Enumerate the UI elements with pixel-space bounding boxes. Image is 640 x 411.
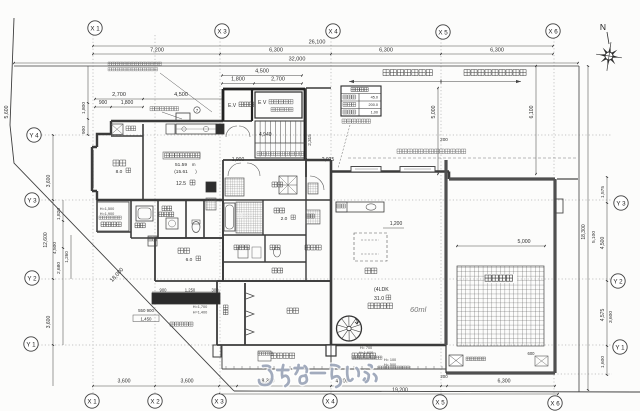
svg-text:Y 1: Y 1 xyxy=(615,344,625,351)
svg-text:200.0: 200.0 xyxy=(368,103,378,107)
washer boxes row xyxy=(238,247,248,258)
bathroom row walls (left unit) xyxy=(97,200,223,238)
svg-text:X 5: X 5 xyxy=(435,399,445,406)
mono-ire dark box xyxy=(206,182,216,192)
svg-text:1,260: 1,260 xyxy=(64,251,69,263)
north arrow xyxy=(594,40,624,72)
senmen room xyxy=(162,206,172,211)
svg-text:550 900: 550 900 xyxy=(138,308,154,313)
butsudan label xyxy=(150,107,179,111)
step spec table xyxy=(341,86,381,116)
svg-text:6,100: 6,100 xyxy=(529,105,535,118)
svg-text:X 6: X 6 xyxy=(548,28,558,35)
yoshitsu 2.0 xyxy=(274,208,285,213)
tesuri label xyxy=(342,119,371,123)
svg-text:1,00: 1,00 xyxy=(371,111,378,115)
kitchen right unit xyxy=(336,202,384,212)
svg-text:4,500: 4,500 xyxy=(600,237,606,250)
svg-text:200: 200 xyxy=(440,374,448,379)
svg-text:600: 600 xyxy=(528,351,536,356)
svg-text:3,600: 3,600 xyxy=(46,175,52,188)
wc left unit xyxy=(192,222,200,233)
middle block outer xyxy=(223,158,331,281)
corridor label mid xyxy=(272,182,283,187)
living labels xyxy=(365,268,377,274)
pillar at wall below stair xyxy=(326,345,336,356)
south balcony xyxy=(213,345,221,357)
svg-text:26,100: 26,100 xyxy=(309,40,326,46)
svg-text:31.0: 31.0 xyxy=(374,296,384,302)
small tile right xyxy=(308,183,318,194)
door arcs top middle xyxy=(228,163,260,176)
EV hall door arcs xyxy=(226,126,250,137)
svg-text:H=1,500: H=1,500 xyxy=(100,207,114,211)
washitsu label xyxy=(113,160,126,166)
svg-text:4,500: 4,500 xyxy=(255,69,269,75)
svg-text:12,600: 12,600 xyxy=(43,232,49,248)
svg-text:900: 900 xyxy=(81,126,87,134)
svg-text:3,600: 3,600 xyxy=(181,379,194,385)
svg-text:2,700: 2,700 xyxy=(112,92,126,98)
left unit outer walls xyxy=(92,121,223,200)
svg-text:H= 500: H= 500 xyxy=(384,363,396,367)
svg-text:18,300: 18,300 xyxy=(581,224,587,240)
svg-text:5,600: 5,600 xyxy=(4,105,10,118)
svg-text:2,315: 2,315 xyxy=(307,134,312,146)
svg-text:12.5: 12.5 xyxy=(176,181,186,187)
watermark uchina-life xyxy=(259,365,376,387)
svg-text:45.0: 45.0 xyxy=(371,96,378,100)
lower bedroom block xyxy=(217,281,331,345)
left unit inner walls xyxy=(142,124,144,200)
stairwell xyxy=(255,121,306,158)
svg-text:E V: E V xyxy=(258,100,267,106)
svg-text:X 4: X 4 xyxy=(325,398,335,405)
svg-text:Y 2: Y 2 xyxy=(613,278,623,285)
north fence to boundary xyxy=(557,178,578,180)
svg-text:H=1,700: H=1,700 xyxy=(193,305,207,309)
svg-text:m: m xyxy=(192,162,196,167)
svg-text:4,575: 4,575 xyxy=(600,309,606,322)
svg-text:Y 3: Y 3 xyxy=(616,200,626,207)
LDK labels xyxy=(163,152,200,159)
svg-text:H=1,400: H=1,400 xyxy=(193,311,207,315)
oshiire closet xyxy=(111,124,123,135)
middle bedroom 6.0 xyxy=(155,200,223,281)
svg-text:200: 200 xyxy=(440,137,448,142)
svg-text:1,800: 1,800 xyxy=(231,77,245,83)
terrace grid xyxy=(457,266,544,346)
svg-text:(4LDK: (4LDK xyxy=(374,287,389,293)
entry door arc right unit xyxy=(310,176,324,190)
svg-text:Y 3: Y 3 xyxy=(27,197,37,204)
black balcony strip xyxy=(152,293,220,304)
hinan hatch terrace xyxy=(449,355,463,366)
svg-text:X 1: X 1 xyxy=(90,25,100,32)
svg-text:2,700: 2,700 xyxy=(271,77,285,83)
svg-text:1,575: 1,575 xyxy=(600,186,606,198)
genkan tile xyxy=(225,178,244,196)
datsui/wc/hall labels xyxy=(234,245,249,250)
balcony left xyxy=(97,202,129,231)
svg-text:H=1,600: H=1,600 xyxy=(359,351,373,355)
svg-text:6,300: 6,300 xyxy=(490,48,504,54)
svg-text:5,100: 5,100 xyxy=(591,231,597,243)
svg-text:6,300: 6,300 xyxy=(498,379,511,385)
svg-text:60ml: 60ml xyxy=(410,305,427,314)
svg-text:6.0: 6.0 xyxy=(186,257,193,263)
svg-text:H= 100: H= 100 xyxy=(384,358,396,362)
svg-text:1,450: 1,450 xyxy=(141,317,153,322)
zoning labels xyxy=(383,70,432,76)
enshou line label xyxy=(397,149,466,154)
svg-text:X 6: X 6 xyxy=(550,400,560,407)
svg-text:X 1: X 1 xyxy=(87,398,97,405)
box 600 right xyxy=(535,356,548,366)
kitchen counter xyxy=(176,124,216,134)
svg-text:900: 900 xyxy=(99,100,108,106)
svg-text:X 4: X 4 xyxy=(328,28,338,35)
svg-text:2,680: 2,680 xyxy=(56,262,62,274)
svg-text:Y 1: Y 1 xyxy=(26,341,36,348)
folding door zigzag xyxy=(246,293,254,335)
dining table dashed xyxy=(354,233,387,261)
svg-text:6,300: 6,300 xyxy=(379,48,393,54)
svg-text:1,600: 1,600 xyxy=(600,356,606,368)
svg-text:3,600: 3,600 xyxy=(46,316,52,329)
svg-text:6,300: 6,300 xyxy=(269,48,283,54)
svg-text:4,940: 4,940 xyxy=(259,132,272,138)
terrace walls xyxy=(446,160,555,373)
svg-text:2.0: 2.0 xyxy=(281,216,288,222)
bathroom 2 xyxy=(223,158,331,281)
svg-text:19,200: 19,200 xyxy=(392,388,408,394)
note text top-left xyxy=(108,62,162,65)
vertical dims top right xyxy=(437,88,439,174)
right dims xyxy=(606,177,608,375)
svg-text:3,600: 3,600 xyxy=(118,379,131,385)
svg-text:N: N xyxy=(600,22,606,32)
svg-text:H=1,900: H=1,900 xyxy=(100,212,114,216)
svg-text:8.0: 8.0 xyxy=(116,169,123,175)
tiled floor bits left unit xyxy=(206,198,216,210)
living room outer walls xyxy=(306,160,449,345)
svg-text:3,600: 3,600 xyxy=(608,311,614,323)
shuunou small xyxy=(148,236,157,246)
top dimensions xyxy=(93,45,553,47)
EV block walls xyxy=(223,89,305,160)
terrace label xyxy=(484,274,517,283)
mono-ire next to EV xyxy=(216,124,224,134)
svg-text:4,500: 4,500 xyxy=(174,92,188,98)
svg-text:H= 700: H= 700 xyxy=(360,346,372,350)
EV cage xyxy=(255,92,302,118)
grid lines xyxy=(92,35,94,393)
grid circles xyxy=(88,21,102,35)
svg-text:1,800: 1,800 xyxy=(81,102,87,114)
living top wall windows xyxy=(351,167,435,172)
svg-text:1,800: 1,800 xyxy=(121,100,134,106)
spiral stair xyxy=(337,316,362,341)
svg-text:51.59: 51.59 xyxy=(175,162,187,168)
bottom dims xyxy=(93,385,555,387)
svg-text:X 3: X 3 xyxy=(217,28,227,35)
svg-text:X 2: X 2 xyxy=(150,398,160,405)
site boundary xyxy=(10,18,234,391)
svg-text:5,000: 5,000 xyxy=(431,105,437,118)
svg-text:4,500: 4,500 xyxy=(52,242,58,254)
svg-text:E.V: E.V xyxy=(228,103,237,109)
svg-text:5,000: 5,000 xyxy=(518,239,531,245)
shuunou hatch xyxy=(306,210,320,224)
svg-text:(15.61: (15.61 xyxy=(174,169,188,175)
svg-text:X 5: X 5 xyxy=(438,29,448,36)
bath tub left unit xyxy=(136,206,153,221)
svg-text:Y 2: Y 2 xyxy=(27,275,37,282)
window cross box xyxy=(279,176,297,194)
svg-text:1,820: 1,820 xyxy=(56,208,62,220)
svg-text:7,200: 7,200 xyxy=(150,48,164,54)
svg-text:Y 4: Y 4 xyxy=(29,132,39,139)
hinan hatch balcony xyxy=(258,351,271,361)
svg-text:X 3: X 3 xyxy=(214,398,224,405)
svg-text:32,000: 32,000 xyxy=(289,57,306,63)
svg-text:1,200: 1,200 xyxy=(390,221,403,227)
